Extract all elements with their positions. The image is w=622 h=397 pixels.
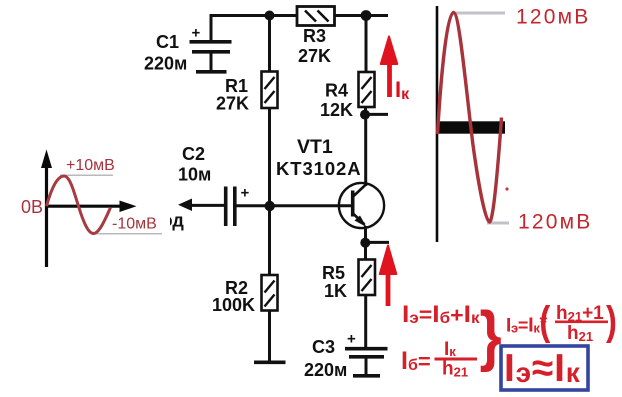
ground (C1) [196, 70, 227, 74]
wire R4 top lead [365, 16, 368, 73]
wire C3 bottom lead [365, 358, 368, 375]
svg-text:KT3102A: KT3102A [276, 158, 361, 179]
svg-text:R3: R3 [303, 26, 326, 46]
ground (C3) [353, 374, 380, 378]
svg-text:Iк: Iк [395, 77, 410, 103]
wire top supply rail [211, 14, 388, 17]
svg-text:Iб=: Iб= [401, 347, 431, 375]
wire emitter lead [364, 226, 367, 243]
wire emitter stub right [366, 241, 390, 244]
output graph dc level bar [437, 121, 505, 133]
stray red dot [505, 187, 508, 190]
resistor R4 [359, 72, 375, 107]
wire R5 bottom lead [364, 295, 367, 347]
resistor R1 [262, 72, 278, 109]
output graph level line bottom [487, 222, 509, 225]
current arrow Ik (collector) [381, 37, 398, 98]
node collector junction [360, 110, 370, 120]
wire R5 top lead [364, 243, 367, 260]
input sine curve [47, 176, 111, 234]
formula Ie=Ik*(h21+1)/h21 [506, 297, 617, 344]
svg-text:27K: 27K [216, 94, 249, 114]
label R2 value [212, 278, 255, 315]
label R5 value [322, 263, 347, 301]
svg-text:10м: 10м [178, 165, 211, 185]
input waveform graph background [0, 142, 170, 272]
svg-text:+: + [347, 331, 356, 348]
svg-text:220м: 220м [304, 360, 347, 380]
resistor R2 [262, 275, 278, 311]
label R4 value [320, 81, 353, 121]
svg-text:C1: C1 [156, 32, 179, 52]
output graph level line top [456, 12, 505, 15]
svg-text:VT1: VT1 [297, 136, 333, 158]
svg-text:+: + [241, 185, 250, 202]
svg-text:C2: C2 [182, 144, 205, 164]
resistor R3 [297, 7, 335, 26]
output sine curve [438, 13, 502, 223]
svg-text:12K: 12K [320, 100, 353, 120]
output graph vertical axis [436, 6, 439, 242]
svg-text:Iэ≈Iк: Iэ≈Iк [504, 347, 581, 390]
capacitor C3 [345, 331, 388, 357]
input graph horizontal axis [45, 201, 137, 213]
current arrow Ie (emitter) [380, 246, 397, 307]
input graph level line +10mV [60, 174, 113, 176]
wire collector lead down [364, 115, 367, 187]
svg-text:220м: 220м [144, 54, 187, 74]
wire base [236, 204, 351, 207]
svg-text:C3: C3 [312, 337, 335, 357]
svg-text:120мВ: 120мВ [518, 211, 592, 234]
svg-text:R4: R4 [325, 81, 348, 101]
svg-text:): ) [606, 297, 617, 343]
label VT1 type [276, 136, 361, 179]
label C1 value [144, 32, 187, 74]
svg-text:27K: 27K [298, 46, 331, 66]
wire R1 top lead [268, 16, 271, 72]
wire collector output stub [365, 113, 388, 116]
node emitter junction [360, 238, 370, 248]
label R1 value [216, 76, 249, 114]
svg-text:}: } [480, 299, 502, 373]
wire C1 top lead [210, 14, 213, 41]
wire R2 bottom lead [268, 311, 271, 362]
wire R1 bottom to base node [268, 108, 271, 276]
svg-text:0В: 0В [21, 197, 43, 217]
input graph level line -10mV [93, 233, 162, 235]
svg-text:h21: h21 [442, 359, 468, 380]
capacitor C2 [226, 185, 250, 227]
input arrow [178, 199, 192, 212]
conclusion box [501, 346, 588, 390]
svg-text:1K: 1K [324, 281, 347, 301]
svg-text:120мВ: 120мВ [516, 6, 590, 29]
svg-text:Iэ=Iк: Iэ=Iк [506, 315, 540, 337]
svg-text:Iк: Iк [444, 339, 456, 360]
input graph vertical axis [41, 150, 52, 268]
label C3 value [304, 337, 347, 380]
wire R4 bottom lead [364, 107, 367, 115]
svg-text:-10мВ: -10мВ [112, 216, 157, 233]
svg-text:(: ( [539, 297, 550, 343]
node supply-R4 junction [361, 10, 372, 21]
svg-text:100K: 100K [212, 295, 255, 315]
ground (R2) [254, 360, 286, 364]
svg-text:h21: h21 [567, 323, 593, 344]
wire input lead [185, 204, 224, 207]
wire C1 bottom lead [210, 54, 213, 71]
node base junction [265, 201, 275, 211]
label C2 value [178, 144, 211, 185]
transistor VT1 [339, 183, 384, 228]
svg-text:+10мВ: +10мВ [66, 157, 115, 174]
svg-text:+: + [192, 25, 201, 42]
label R3 value [298, 26, 331, 66]
svg-text:R5: R5 [322, 263, 345, 283]
node supply-R1 junction [265, 11, 275, 21]
resistor R5 [359, 260, 376, 296]
svg-text:Iэ=Iб+Iк: Iэ=Iб+Iк [402, 301, 480, 328]
formula Ib=Ik/h21 [401, 339, 477, 380]
capacitor C1 [190, 25, 232, 52]
